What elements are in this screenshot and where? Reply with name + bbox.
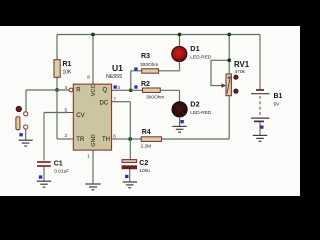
pushbutton actuator bbox=[16, 106, 21, 111]
svg-text:R: R bbox=[76, 88, 81, 94]
wire battery to ground bbox=[259, 123, 261, 136]
wire VCC column bbox=[92, 35, 94, 80]
wire R4 left lead bbox=[130, 138, 141, 140]
node Q junction bbox=[129, 88, 133, 92]
ground D2 bbox=[172, 126, 186, 132]
wire R1 column bbox=[56, 35, 58, 91]
pin 4 inversion circle bbox=[69, 88, 73, 92]
wire button column bbox=[25, 90, 27, 112]
pin number 1 bbox=[87, 154, 90, 159]
capacitor C1 bbox=[37, 161, 69, 175]
wire R3 left lead bbox=[131, 70, 142, 72]
wire R3 right lead bbox=[159, 70, 180, 72]
wire C2 column bbox=[129, 139, 131, 160]
svg-text:Q: Q bbox=[103, 88, 108, 94]
node D1 rail junction bbox=[178, 33, 182, 37]
wire GND column bbox=[92, 155, 94, 184]
svg-text:2: 2 bbox=[65, 133, 68, 138]
pin-end marker R3 bbox=[134, 67, 137, 70]
node VCC rail junction bbox=[91, 33, 95, 37]
svg-text:D2: D2 bbox=[190, 100, 199, 109]
resistor R3 bbox=[140, 53, 159, 73]
svg-text:LED-RED: LED-RED bbox=[190, 55, 212, 61]
node RV1 rail junction bbox=[227, 33, 231, 37]
pin number 4 bbox=[65, 85, 68, 90]
svg-text:R3: R3 bbox=[141, 53, 150, 60]
svg-text:U1: U1 bbox=[112, 63, 123, 73]
pin number 7 bbox=[113, 97, 116, 102]
svg-text:6: 6 bbox=[113, 134, 116, 139]
pin stub TR bbox=[68, 138, 73, 140]
pin-end marker battery bbox=[260, 126, 263, 129]
pin stub VCC bbox=[92, 79, 94, 84]
pin-end marker C2 bbox=[125, 175, 128, 178]
pin-end marker Q bbox=[114, 85, 117, 88]
svg-text:R4: R4 bbox=[142, 129, 151, 136]
pin stub TH bbox=[112, 138, 117, 140]
capacitor C2 polarized bbox=[122, 160, 150, 174]
wire C1 to ground bbox=[43, 167, 45, 181]
pin stub DC bbox=[112, 101, 117, 103]
ground C1 bbox=[37, 181, 51, 187]
pin number 6 bbox=[113, 134, 116, 139]
svg-text:300Ohm: 300Ohm bbox=[140, 62, 158, 68]
svg-text:C2: C2 bbox=[139, 160, 148, 167]
svg-text:5: 5 bbox=[65, 108, 68, 113]
node TH junction bbox=[128, 137, 132, 141]
svg-text:GND: GND bbox=[91, 134, 97, 146]
wire Q to R3 column bbox=[130, 71, 132, 91]
pin number 8 bbox=[87, 75, 90, 80]
svg-text:300Ohm: 300Ohm bbox=[146, 95, 164, 101]
wire TR row bbox=[57, 138, 69, 140]
wire CV row bbox=[44, 112, 69, 114]
svg-text:4: 4 bbox=[65, 85, 68, 90]
svg-text:TR: TR bbox=[76, 137, 85, 143]
pin stub GND bbox=[92, 150, 94, 155]
pin-end marker R2 bbox=[134, 85, 137, 88]
wire C2 to ground bbox=[129, 169, 131, 182]
wire D1 bottom lead bbox=[179, 61, 181, 71]
ground battery bbox=[253, 135, 267, 141]
wire RV1 wiper link bbox=[211, 60, 229, 88]
battery B1 bbox=[251, 90, 283, 121]
ground U1 bbox=[85, 184, 101, 190]
resistor R2 bbox=[141, 81, 164, 101]
pin number 5 bbox=[65, 108, 68, 113]
wire TH row bbox=[116, 138, 130, 140]
svg-text:0.01uF: 0.01uF bbox=[54, 169, 69, 175]
IC pin labels bbox=[76, 84, 110, 146]
wire reset row bbox=[26, 89, 69, 91]
pin-end marker button bbox=[19, 133, 22, 136]
wire D1 top lead bbox=[179, 35, 181, 48]
pin number 3 bbox=[117, 85, 120, 90]
pin-end marker D2 bbox=[181, 120, 184, 123]
svg-text:10K: 10K bbox=[63, 70, 73, 76]
svg-text:RV1: RV1 bbox=[234, 60, 250, 69]
wire RV1 bottom column bbox=[228, 96, 230, 139]
svg-text:1: 1 bbox=[87, 154, 90, 159]
wire Q row bbox=[116, 89, 131, 91]
LED D2 unlit bbox=[172, 100, 212, 118]
wire R2 left lead bbox=[131, 89, 143, 91]
wire button to ground bbox=[25, 129, 27, 140]
svg-text:R2: R2 bbox=[141, 81, 150, 88]
op-amp U1 body NE555 bbox=[73, 63, 123, 150]
pin-end marker C1 bbox=[39, 175, 42, 178]
svg-text:CV: CV bbox=[76, 113, 84, 119]
wire R2 right lead bbox=[160, 89, 179, 91]
svg-text:NE555: NE555 bbox=[106, 74, 122, 80]
wire reset-to-TR column bbox=[56, 90, 58, 139]
svg-text:VCC: VCC bbox=[91, 84, 97, 96]
svg-text:3: 3 bbox=[117, 85, 120, 90]
svg-text:100u: 100u bbox=[139, 168, 150, 174]
wire DC row bbox=[116, 101, 130, 103]
wire VCC top rail bbox=[57, 34, 260, 36]
pushbutton contacts and plunger bbox=[16, 112, 28, 130]
ground button bbox=[19, 140, 33, 146]
resistor R1 bbox=[54, 60, 72, 78]
resistor R4 bbox=[141, 129, 162, 149]
ground C2 bbox=[123, 182, 138, 188]
pin stub CV bbox=[68, 112, 73, 114]
svg-text:7: 7 bbox=[113, 97, 116, 102]
svg-text:TH: TH bbox=[102, 137, 110, 143]
svg-text:D1: D1 bbox=[190, 44, 199, 53]
svg-text:B1: B1 bbox=[274, 93, 283, 100]
wire DC to TH column bbox=[129, 102, 131, 139]
adjust button RV1 up bbox=[234, 75, 238, 79]
svg-text:470k: 470k bbox=[235, 69, 246, 75]
pin stub Q bbox=[112, 89, 117, 91]
wire D2 bottom lead bbox=[179, 117, 181, 126]
node RV1 wiper junction bbox=[227, 58, 231, 62]
svg-text:LED-RED: LED-RED bbox=[190, 110, 212, 116]
node reset junction bbox=[55, 88, 59, 92]
svg-text:C1: C1 bbox=[54, 161, 63, 168]
adjust button RV1 down bbox=[234, 89, 238, 93]
LED D1 lit bbox=[172, 44, 212, 62]
svg-text:2.2M: 2.2M bbox=[141, 143, 152, 149]
svg-text:DC: DC bbox=[100, 100, 109, 106]
svg-text:9V: 9V bbox=[274, 102, 281, 108]
svg-text:8: 8 bbox=[87, 75, 90, 80]
wire R4 right lead long bbox=[162, 138, 230, 140]
svg-text:R1: R1 bbox=[63, 61, 72, 68]
wire battery column bbox=[259, 35, 261, 90]
pin number 2 bbox=[65, 133, 68, 138]
potentiometer RV1 bbox=[226, 60, 250, 96]
wire D2 top lead bbox=[179, 90, 181, 102]
wire CV to C1 column bbox=[43, 113, 45, 161]
wire RV1 top column bbox=[228, 35, 230, 75]
